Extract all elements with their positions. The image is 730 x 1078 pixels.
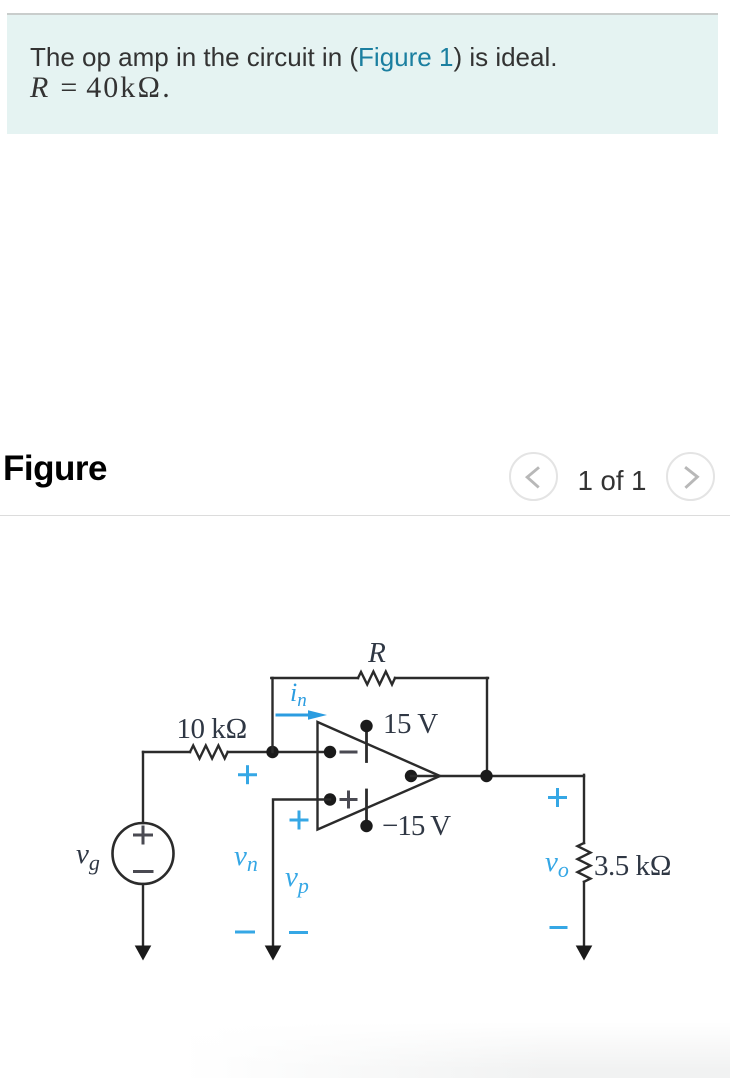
bottom-right soft shadow of figure image [0, 1022, 730, 1078]
wire feedback top left [271, 677, 358, 679]
plus sign vo [550, 790, 566, 806]
node dot output feedback junction [480, 770, 492, 782]
pagination label [567, 465, 657, 497]
wire resistor to inverting input [228, 751, 330, 753]
op-amp noninverting sign [341, 792, 356, 807]
svg-text:R: R [367, 637, 386, 669]
minus sign vp [291, 931, 307, 934]
wire feedback right vertical [486, 678, 488, 776]
plus sign vn [240, 767, 256, 783]
problem text line 2 (math) [30, 71, 172, 105]
-15V supply lead and dot [360, 790, 372, 832]
ground arrow vg [135, 946, 152, 961]
pagination next button [666, 452, 715, 501]
voltage source vg circle [113, 823, 174, 884]
ground arrow load [576, 946, 593, 961]
svg-text:10 kΩ: 10 kΩ [177, 713, 248, 745]
horizontal rule [0, 515, 730, 516]
pagination previous button [509, 452, 558, 501]
svg-text:vg: vg [76, 838, 100, 875]
node dot inverting junction [266, 746, 278, 758]
problem statement panel [7, 13, 718, 134]
op-amp inverting sign [341, 751, 356, 754]
wire feedback left vertical [271, 678, 273, 752]
current arrow in [277, 710, 327, 719]
resistor 3.5 kOhm zigzag [578, 843, 591, 882]
ground arrow vp [265, 946, 282, 961]
dot op-amp inverting terminal [324, 746, 336, 758]
op-amp triangle U1 [318, 722, 441, 830]
resistor 10 kOhm zigzag [190, 746, 228, 759]
wire feedback top right [395, 677, 488, 679]
svg-text:vo: vo [545, 846, 569, 882]
svg-text:in: in [290, 678, 307, 711]
vg plus terminal [135, 827, 152, 843]
wire output horizontal [411, 775, 584, 777]
dot op-amp output [405, 770, 417, 782]
svg-text:3.5 kΩ: 3.5 kΩ [594, 850, 671, 882]
svg-text:vp: vp [285, 861, 309, 898]
vg minus terminal [135, 870, 153, 873]
wire vg top lead [142, 752, 144, 823]
Figure heading [3, 449, 107, 489]
wire input horizontal left [143, 751, 190, 753]
wire noninverting input to ground [273, 800, 330, 948]
minus sign vo [551, 926, 566, 929]
circuit schematic [0, 518, 730, 1078]
minus sign vn [237, 931, 254, 934]
resistor R zigzag [358, 672, 395, 685]
wire load top vertical [583, 775, 585, 843]
svg-text:15 V: 15 V [383, 708, 438, 740]
svg-text:−15 V: −15 V [382, 810, 451, 842]
+15V supply lead and dot [360, 720, 372, 762]
plus sign vp [291, 812, 307, 828]
dot op-amp noninverting terminal [324, 793, 336, 805]
wire vg bottom lead [142, 884, 144, 947]
wire load bottom vertical [583, 882, 585, 947]
problem text line 1 [30, 42, 557, 73]
svg-text:vn: vn [234, 840, 258, 876]
